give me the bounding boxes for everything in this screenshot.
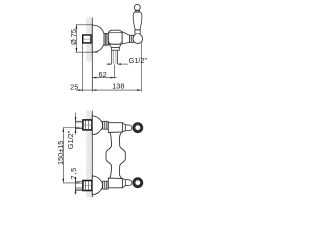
upper connection rings (plan view) — [103, 121, 109, 129]
connection nut rings (side view) — [104, 34, 108, 46]
upper eccentric tip (plan view) — [122, 123, 131, 132]
lower eccentric tip (plan view) — [122, 179, 131, 188]
svg-text:62: 62 — [99, 70, 107, 79]
wall face line / extension line (side view) — [91, 18, 93, 92]
wall hatch (side view) — [86, 18, 92, 62]
label G1/2 (plan view upper stub) — [66, 113, 77, 150]
wall hatch (plan view) — [86, 111, 92, 198]
dimension 7,5 — [69, 167, 86, 195]
svg-text:G1/2": G1/2" — [66, 130, 75, 149]
in-wall union square (side view) — [83, 35, 91, 43]
lower body block (plan view) — [108, 178, 122, 188]
dimension 62 — [92, 65, 116, 79]
lower connection rings (plan view) — [103, 181, 109, 189]
dimension Ø75 — [69, 25, 98, 52]
handle knob (side view) — [134, 4, 140, 12]
handle ferrule (side view) — [135, 30, 140, 35]
label G1/2 (side view outlet thread) — [106, 56, 147, 65]
upper escutcheon bell (plan view) — [92, 116, 102, 135]
svg-text:7,5: 7,5 — [69, 167, 78, 179]
dimension 150±15 — [56, 128, 80, 183]
mixer body (side view) — [108, 30, 122, 44]
svg-text:150±15: 150±15 — [56, 141, 65, 165]
outlet collar (side view) — [109, 44, 121, 50]
upper ring (handle eye, plan view) — [133, 123, 143, 133]
dimension 25 — [70, 43, 96, 91]
body vase (plan view) — [106, 132, 125, 178]
lower escutcheon bell (plan view) — [92, 176, 102, 195]
outlet pipe (side view) — [112, 50, 118, 64]
svg-text:Ø 75: Ø 75 — [69, 29, 78, 45]
upper in-wall nut (plan view) — [83, 120, 92, 130]
upper inlet stub pipe (plan view) — [75, 121, 83, 128]
svg-text:25: 25 — [70, 83, 78, 92]
escutcheon dome (side view) — [92, 25, 104, 52]
upper body block (plan view) — [108, 123, 122, 133]
dimension 138 — [83, 42, 142, 92]
handle ball (side view) — [133, 34, 143, 44]
lower ring (handle eye, plan view) — [133, 178, 143, 188]
cone to handle ball (side view) — [122, 32, 129, 44]
svg-text:138: 138 — [112, 81, 124, 90]
small bands before ball (side view) — [130, 35, 134, 42]
lower in-wall nut (plan view) — [83, 181, 92, 191]
lever handle baluster (side view) — [133, 12, 142, 30]
lower inlet stub pipe (plan view) — [75, 182, 83, 189]
wall face line (plan view) — [91, 111, 93, 198]
svg-text:G1/2": G1/2" — [129, 56, 148, 65]
